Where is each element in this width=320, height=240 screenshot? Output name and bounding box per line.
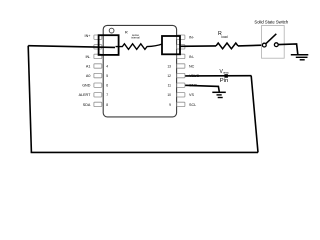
IC U1 body (103, 25, 176, 117)
svg-text:R: R (125, 30, 128, 35)
wire: loop right slanted segment up to Varray node (251, 76, 258, 153)
svg-text:IN-: IN- (85, 55, 91, 59)
switch S1 contacts and lever (262, 34, 278, 47)
wire: VBUS pin 12 to Varray node (185, 75, 251, 77)
pin 7 (ALERT) (79, 93, 109, 98)
svg-text:array: array (223, 71, 229, 74)
svg-text:11: 11 (168, 84, 172, 88)
svg-text:13: 13 (167, 64, 171, 68)
svg-text:Solid State Switch: Solid State Switch (254, 20, 288, 25)
ground (near pin 11) (212, 92, 226, 97)
wire: switch to ground (278, 44, 298, 54)
terminal square IN- (right) (162, 36, 180, 54)
terminal square IN+ (left) (99, 35, 119, 55)
svg-text:5: 5 (106, 74, 108, 78)
wire: GND pin 11 to ground (185, 85, 219, 92)
svg-text:7: 7 (106, 93, 108, 97)
svg-text:GND: GND (82, 84, 91, 88)
svg-text:10: 10 (167, 93, 171, 97)
label Rload (218, 31, 228, 39)
svg-text:8: 8 (106, 103, 108, 107)
ground (right of switch) (291, 55, 309, 60)
node Varray junction dot (224, 74, 228, 78)
svg-text:VS: VS (189, 93, 194, 97)
pin 16 (IN-) (177, 35, 195, 40)
pin 9 (SCL) (169, 102, 196, 107)
resistor Rload (216, 43, 238, 49)
pin 15 (IN-) (177, 45, 185, 49)
label Varray (220, 69, 230, 75)
pin 1 (IN+) (85, 34, 102, 40)
pin 1 indicator circle (109, 28, 114, 33)
label Pin (220, 78, 229, 84)
svg-text:IN-: IN- (189, 36, 195, 40)
svg-text:A1: A1 (86, 64, 91, 68)
svg-text:load: load (221, 35, 227, 39)
wire: loop top segment from IN+ pins to left (28, 46, 115, 48)
svg-text:SDA: SDA (83, 103, 91, 107)
pin 12 (VBUS) (167, 73, 199, 78)
svg-text:4: 4 (106, 64, 108, 68)
pin 2 (IN+) (94, 45, 102, 49)
svg-text:Pin: Pin (220, 78, 229, 84)
svg-text:SCL: SCL (189, 103, 196, 107)
pin 3 (IN-) (85, 54, 101, 59)
pin 6 (GND) (82, 83, 108, 88)
wire: IN- pins to Rload (180, 45, 216, 47)
svg-text:internal: internal (131, 36, 140, 40)
svg-text:12: 12 (167, 74, 171, 78)
pin 11 (GND) (168, 83, 198, 88)
svg-text:IN-: IN- (189, 55, 195, 59)
switch S1 box (Solid State Switch) (262, 26, 285, 59)
wire: Rload to switch (238, 44, 262, 47)
pin 14 (IN-) (177, 54, 195, 59)
wire: loop bottom segment (31, 151, 258, 153)
svg-text:IN+: IN+ (85, 34, 91, 38)
svg-text:NC: NC (189, 64, 195, 68)
label Solid State Switch (254, 20, 288, 25)
pin 10 (VS) (167, 93, 194, 98)
label Rsense internal (125, 30, 140, 40)
svg-text:A0: A0 (86, 74, 91, 78)
wire: loop left segment (28, 46, 31, 153)
pin 5 (A0) (86, 73, 108, 78)
svg-text:6: 6 (106, 84, 108, 88)
resistor Rsense internal (116, 44, 163, 50)
svg-text:9: 9 (169, 103, 171, 107)
pin 13 (NC) (167, 64, 194, 69)
pin 8 (SDA) (83, 102, 108, 107)
pin 4 (A1) (86, 64, 108, 69)
svg-text:ALERT: ALERT (79, 93, 92, 97)
